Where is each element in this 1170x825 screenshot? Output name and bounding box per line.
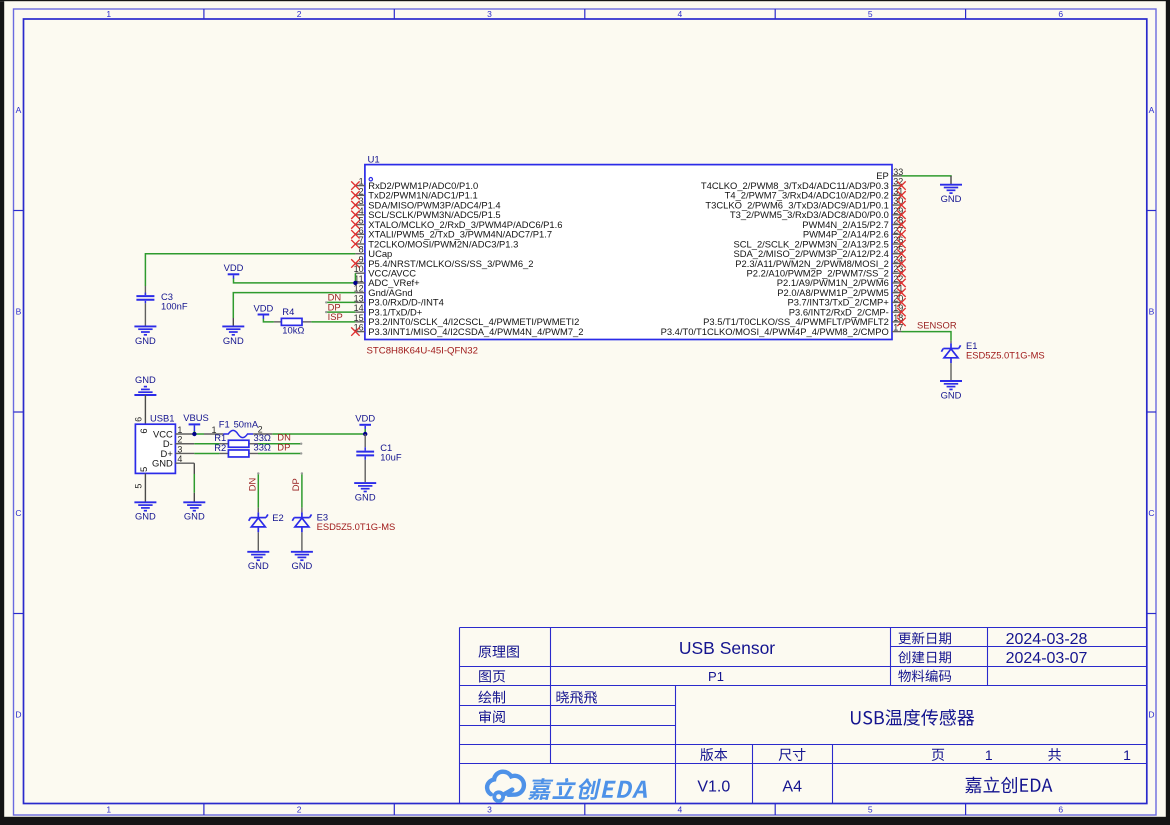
JLCEDA logo cloud icon [487,772,524,795]
resistor R2 33ohm [194,452,219,454]
wire end dot (DP riser) [301,472,303,474]
wire F1 to VDD/C1 [272,433,365,435]
label: update date [899,632,951,645]
label: of [1048,748,1061,761]
svg-text:1: 1 [985,747,993,763]
svg-text:3: 3 [177,444,182,454]
svg-text:10uF: 10uF [380,452,402,463]
U1 pin 26 [892,243,902,245]
svg-text:10: 10 [354,264,364,274]
title block grid [459,628,461,804]
U1 pin 16 [355,331,365,333]
junction at pin11 [353,281,357,285]
JLCEDA logo text [528,778,647,800]
svg-text:6: 6 [134,417,144,422]
svg-text:33Ω: 33Ω [254,442,271,453]
ground below C3 [134,325,156,327]
ESD diode E3 [301,508,303,513]
canvas edge top [0,0,1170,1]
svg-text:3: 3 [487,805,492,815]
svg-text:P1: P1 [708,669,724,684]
power flag VDD (R4) [258,314,270,316]
label: sheet page [479,670,505,682]
label: create date [898,651,951,663]
ground below C1 [354,482,376,484]
svg-text:USB Sensor: USB Sensor [679,638,775,658]
canvas edge bottom [0,817,1170,825]
company: JLC EDA [965,777,1052,794]
capacitor C1 10uF [364,434,366,447]
U1 pin 17 [892,331,902,333]
capacitor C3 [144,286,146,295]
svg-text:1: 1 [177,425,182,435]
wire UCap net: pin8 to C3 [145,254,355,286]
svg-text:5: 5 [134,484,144,489]
U1 pin 9 [355,262,365,264]
svg-text:VDD: VDD [224,262,244,273]
U1 pin 21 [892,292,902,294]
svg-text:GND: GND [223,335,244,346]
fuse F1 50mA [204,433,223,435]
svg-text:A: A [1149,105,1155,115]
drawn by name [557,691,598,704]
U1 pin 22 [892,282,902,284]
U1 pin 6 [355,233,365,235]
svg-text:P3.3/INT1/MISO_4/I2CSDA_4/PWM4: P3.3/INT1/MISO_4/I2CSDA_4/PWM4N_4/PWM7_2 [368,326,583,337]
ground (USB pin4) [183,501,205,503]
wire DN stub to pin13 [326,301,355,303]
svg-text:STC8H8K64U-45I-QFN32: STC8H8K64U-45I-QFN32 [367,346,478,357]
U1 pin 5 [355,224,365,226]
svg-text:B: B [16,306,22,316]
svg-text:1: 1 [106,805,111,815]
junction at C1/VDD [363,432,367,436]
wire VDD2 to R4 [263,319,274,322]
svg-text:A4: A4 [782,779,802,796]
wire DN from R1 [258,443,301,445]
svg-text:2: 2 [297,805,302,815]
svg-text:GND: GND [135,335,156,346]
svg-text:50mA: 50mA [234,418,259,429]
U1 pin 28 [892,224,902,226]
svg-text:6: 6 [1058,9,1063,19]
svg-text:B: B [1149,306,1155,316]
svg-text:4: 4 [177,454,182,464]
ESD diode E2 [257,508,259,513]
U1 pin 24 [892,262,902,264]
svg-text:D: D [1148,709,1154,719]
svg-text:5: 5 [138,467,149,472]
U1 pin 32 [892,185,902,187]
svg-text:USB1: USB1 [150,413,175,424]
svg-text:DP: DP [290,478,301,491]
power flag VBUS [189,423,201,425]
wire end dot (DP stub) [325,311,327,313]
svg-text:V1.0: V1.0 [697,779,730,796]
svg-text:GND: GND [152,458,173,469]
U1 pin 29 [892,214,902,216]
U1 pin 23 [892,272,902,274]
USB1 pin5 to ground [144,473,146,502]
U1 pin 8 [355,253,365,255]
U1 pin 4 [355,214,365,216]
svg-text:ESD5Z5.0T1G-MS: ESD5Z5.0T1G-MS [966,349,1045,360]
wire VBUS junction on VCC [194,431,204,434]
wire DP from R2 [258,452,301,454]
wire end dot (DN stub) [325,301,327,303]
U1 pin 10 [355,272,365,274]
svg-text:C: C [15,508,21,518]
svg-text:VDD: VDD [254,302,274,313]
svg-text:P3.4/T0/T1CLKO/MOSI_4/PWM4P_4/: P3.4/T0/T1CLKO/MOSI_4/PWM4P_4/PWM8_2/CMP… [661,326,889,337]
power flag VDD (C1) [359,424,371,426]
U1 pin 31 [892,194,902,196]
label: drawn by [478,691,505,704]
svg-text:GND: GND [135,511,156,522]
svg-text:DN: DN [247,478,258,492]
svg-text:R4: R4 [282,306,294,317]
svg-text:2024-03-07: 2024-03-07 [1006,650,1088,667]
U1 pin 20 [892,301,902,303]
product name: USB temperature sensor [851,709,974,726]
wire DP to ESD diode [301,473,303,507]
svg-text:A: A [16,105,22,115]
svg-text:4: 4 [678,805,683,815]
canvas edge right [1166,0,1170,825]
svg-text:GND: GND [248,560,269,571]
U1 pin 14 [355,311,365,313]
svg-text:GND: GND [291,560,312,571]
wire DN to ESD diode [257,473,259,507]
svg-text:VDD: VDD [355,413,375,424]
svg-text:GND: GND [355,492,376,503]
svg-text:C: C [1148,508,1154,518]
U1 pin 33 [892,175,902,177]
wire EP pin33 to ground [902,175,952,177]
U1 pin 13 [355,301,365,303]
resistor R4 10k [274,321,282,323]
svg-text:DP: DP [328,301,341,312]
svg-text:ESD5Z5.0T1G-MS: ESD5Z5.0T1G-MS [317,521,396,532]
wire SENSOR: pin17 to E1 [902,332,952,341]
U1 pin 18 [892,321,902,323]
ground (U1 pin12) [222,325,244,327]
wire end dot (DP row) [300,452,302,454]
ground below USB1 pin5 [134,501,156,503]
svg-text:10kΩ: 10kΩ [282,324,304,335]
frame row ticks [14,210,24,212]
svg-text:GND: GND [184,511,205,522]
svg-text:3: 3 [487,9,492,19]
svg-text:2: 2 [297,9,302,19]
svg-text:GND: GND [135,374,156,385]
U1 pin 7 [355,243,365,245]
U1 pin 2 [355,194,365,196]
wire VDD to pin11 with junction [234,279,355,283]
frame column ticks [203,9,205,19]
U1 pin 25 [892,253,902,255]
U1 pin 27 [892,233,902,235]
wire USB pin4 to ground [193,463,195,474]
wire end dot (DN row) [300,443,302,445]
svg-text:F1: F1 [219,418,230,429]
connector USB1 [144,395,146,424]
U1 pin 11 [355,282,365,284]
U1 pin 1 [355,185,365,187]
svg-text:8: 8 [359,245,364,255]
ESD diode E1 [950,341,952,344]
ground above USB1 (pin6 shield) [134,394,156,396]
svg-text:4: 4 [678,9,683,19]
svg-text:5: 5 [868,805,873,815]
label: page [932,749,944,761]
ground below E3 [291,551,313,553]
svg-text:R2: R2 [214,442,226,453]
svg-text:D: D [15,709,21,719]
wire R4 to pin15 [311,321,355,323]
svg-text:E2: E2 [272,512,283,523]
svg-text:GND: GND [941,389,962,400]
label: material code [898,670,951,683]
svg-text:6: 6 [138,428,149,433]
label: size [779,748,806,761]
IC U1 STC8H8K64U-45I-QFN32 body [365,165,892,340]
U1 pin 15 [355,321,365,323]
U1 pin 30 [892,204,902,206]
svg-text:SENSOR: SENSOR [917,320,957,331]
svg-text:100nF: 100nF [161,300,188,311]
ground (EP) [940,184,962,186]
title label: schematic [478,646,518,658]
wire pin12 Gnd/AGnd to ground [233,293,355,318]
U1 pin 12 [355,292,365,294]
svg-text:VBUS: VBUS [183,412,209,423]
power flag VDD (to U1 pin 11) [228,273,240,275]
svg-text:DP: DP [277,441,290,452]
svg-text:2: 2 [177,435,182,445]
U1 pin 3 [355,204,365,206]
svg-text:U1: U1 [368,154,380,165]
svg-text:6: 6 [1058,805,1063,815]
canvas edge left [0,1,4,825]
ground below E1 [940,380,962,382]
ground below E2 [247,551,269,553]
svg-text:5: 5 [868,9,873,19]
svg-text:2024-03-28: 2024-03-28 [1006,631,1088,648]
wire end dot (DN riser) [257,472,259,474]
label: reviewed [479,710,505,723]
resistor R1 33ohm [194,443,219,445]
U1 pin 19 [892,311,902,313]
svg-text:GND: GND [941,193,962,204]
label: version [700,748,727,761]
svg-text:1: 1 [106,9,111,19]
svg-text:1: 1 [1123,747,1131,763]
wire DP stub to pin14 [326,311,355,313]
